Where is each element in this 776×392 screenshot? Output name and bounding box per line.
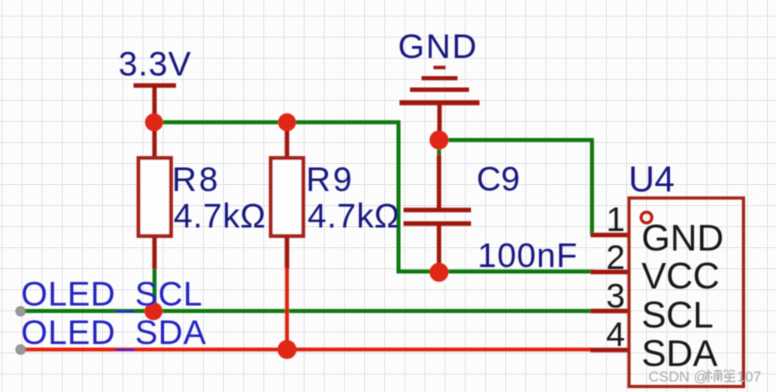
svg-text:107: 107 bbox=[737, 370, 761, 386]
svg-text:GND: GND bbox=[398, 28, 478, 66]
svg-text:R8: R8 bbox=[172, 161, 220, 199]
svg-text:CSDN @: CSDN @ bbox=[649, 370, 709, 386]
svg-text:OLED_SCL: OLED_SCL bbox=[21, 276, 203, 314]
svg-text:SCL: SCL bbox=[642, 294, 714, 335]
svg-text:SDA: SDA bbox=[642, 333, 718, 374]
svg-text:U4: U4 bbox=[629, 159, 675, 200]
svg-text:4.7kΩ: 4.7kΩ bbox=[308, 198, 401, 236]
svg-text:VCC: VCC bbox=[642, 256, 720, 297]
svg-text:3: 3 bbox=[606, 278, 625, 316]
svg-text:OLED_SDA: OLED_SDA bbox=[21, 314, 206, 352]
svg-text:3.3V: 3.3V bbox=[119, 46, 192, 84]
svg-text:1: 1 bbox=[606, 201, 625, 239]
svg-text:GND: GND bbox=[642, 218, 724, 259]
svg-text:100nF: 100nF bbox=[478, 237, 578, 275]
svg-text:4: 4 bbox=[606, 316, 625, 354]
svg-text:4.7kΩ: 4.7kΩ bbox=[174, 198, 267, 236]
svg-text:R9: R9 bbox=[306, 161, 354, 199]
svg-text:2: 2 bbox=[606, 239, 625, 277]
svg-text:C9: C9 bbox=[477, 161, 520, 199]
